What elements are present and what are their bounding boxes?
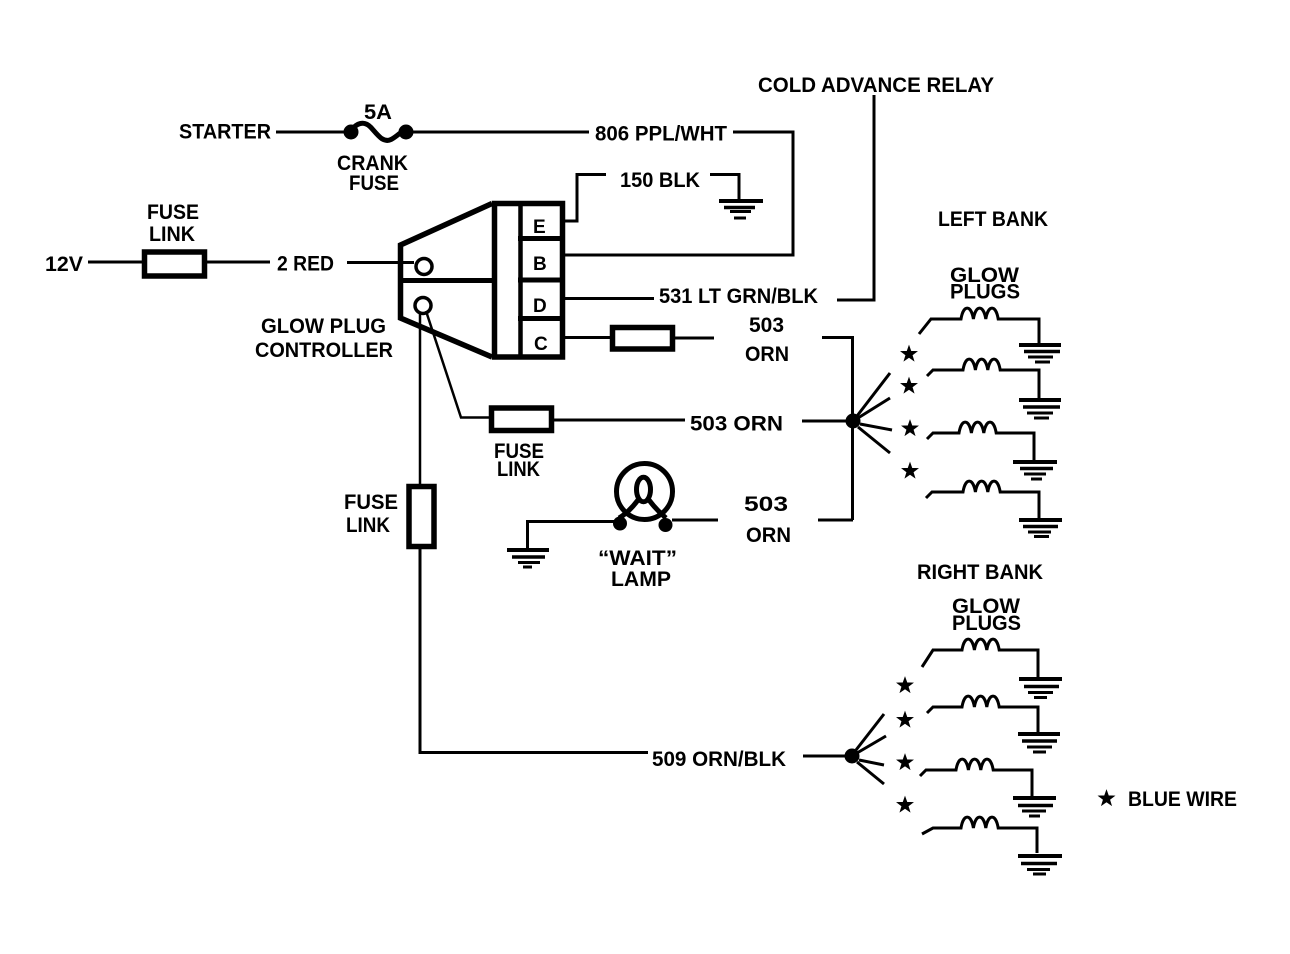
fan wire RB 2	[857, 736, 886, 753]
label FUSE LINK (12V)	[147, 201, 199, 246]
controller inner vertical bar	[518, 203, 523, 357]
wire wait lamp to ground	[528, 522, 615, 549]
star marker LB1	[902, 347, 916, 360]
wait lamp filament loop	[637, 477, 651, 502]
junction node left bank	[846, 414, 861, 429]
ground for wait lamp	[507, 550, 549, 567]
wait lamp filament leg left	[619, 500, 638, 518]
fan wire RB 1	[856, 714, 884, 750]
label 503 ORN (terminal C)	[745, 314, 789, 366]
svg-text:5A: 5A	[364, 101, 392, 124]
wire 509 ORN/BLK to right-bank junction	[803, 755, 845, 758]
glow plug LB1 resistor	[919, 308, 1039, 343]
star marker LB3	[903, 421, 917, 434]
label FUSE LINK (FL2)	[494, 440, 544, 481]
wire FL4 down to 509 ORN/BLK	[420, 547, 648, 753]
controller pin circle upper	[416, 259, 432, 275]
fuse link FL4 (vertical)	[409, 487, 434, 547]
terminal divider B/D	[518, 278, 562, 283]
ground for RB3	[1013, 798, 1056, 816]
wire FL3 to 503 ORN label	[554, 419, 685, 422]
wait lamp terminal right	[659, 518, 673, 532]
ground for RB1	[1019, 679, 1062, 698]
wire wait lamp to 503 ORN label	[672, 519, 718, 522]
ground for RB2	[1018, 734, 1060, 752]
ground for RB4	[1018, 856, 1062, 874]
wait lamp filament leg right	[649, 500, 666, 518]
glow plug RB2 resistor	[927, 696, 1038, 732]
svg-text:PLUGS: PLUGS	[952, 612, 1021, 635]
svg-text:CONTROLLER: CONTROLLER	[255, 339, 393, 362]
wait lamp bulb	[617, 464, 673, 520]
svg-text:E: E	[533, 217, 546, 238]
label 503 ORN (wait lamp)	[744, 493, 791, 547]
svg-text:B: B	[533, 254, 547, 275]
fan wire RB 4	[857, 762, 884, 784]
controller connector column	[495, 204, 563, 358]
wire lower pin to fuse link FL3 (diagonal)	[426, 311, 489, 418]
svg-text:LINK: LINK	[149, 223, 195, 246]
controller pin circle lower	[415, 298, 431, 314]
svg-text:FUSE: FUSE	[344, 491, 398, 514]
glow plug controller housing (trapezoid body)	[401, 204, 493, 358]
ground for LB1	[1019, 345, 1061, 362]
ground for LB4	[1019, 520, 1062, 537]
fan wire LB 2	[858, 398, 890, 418]
wire 12V to fuse link	[88, 261, 142, 264]
label FUSE LINK (FL4)	[344, 491, 398, 537]
svg-text:PLUGS: PLUGS	[950, 281, 1020, 304]
wire COLD ADVANCE RELAY to 531 line	[837, 95, 874, 300]
svg-text:LAMP: LAMP	[611, 568, 671, 591]
junction node right bank	[845, 749, 860, 764]
svg-text:D: D	[533, 296, 547, 317]
star marker RB4	[898, 798, 912, 811]
wire 503 ORN to left-bank junction riser	[822, 338, 853, 521]
star marker RB1	[898, 678, 912, 691]
glow plug RB1 resistor	[922, 639, 1038, 677]
star marker RB3	[898, 755, 912, 768]
ground for LB3	[1013, 462, 1057, 479]
wire 503 ORN label to left-bank junction	[802, 420, 847, 423]
wire terminal E to 150 BLK label	[562, 175, 606, 222]
svg-text:509 ORN/BLK: 509 ORN/BLK	[652, 748, 786, 771]
svg-text:150 BLK: 150 BLK	[620, 169, 700, 192]
fan wire LB 4	[858, 427, 890, 453]
label CRANK FUSE	[337, 152, 408, 195]
wire 806 PPL/WHT to terminal B	[564, 132, 793, 255]
svg-text:STARTER: STARTER	[179, 121, 271, 144]
svg-text:C: C	[534, 334, 548, 355]
glow plug LB2 resistor	[927, 359, 1039, 398]
fuse link FL2 (terminal C)	[613, 328, 673, 350]
label GLOW PLUG CONTROLLER	[255, 315, 393, 362]
fan wire LB 3	[860, 424, 892, 430]
fuse F1 CRANK FUSE 5A	[344, 123, 413, 140]
glow plug LB3 resistor	[927, 422, 1034, 460]
ground for LB2	[1019, 400, 1061, 418]
wait lamp terminal left	[613, 517, 627, 531]
glow plug LB4 resistor	[926, 481, 1039, 518]
wire 150 BLK to ground	[710, 175, 739, 200]
glow plug RB3 resistor	[920, 759, 1032, 796]
svg-text:ORN: ORN	[746, 524, 791, 547]
svg-text:806 PPL/WHT: 806 PPL/WHT	[595, 123, 727, 146]
svg-text:FUSE: FUSE	[147, 201, 199, 224]
svg-text:RIGHT BANK: RIGHT BANK	[917, 561, 1043, 584]
star marker LB4	[903, 464, 917, 477]
label GLOW PLUGS (right bank)	[952, 595, 1021, 635]
terminal divider D/C	[518, 316, 562, 321]
fan wire LB 1	[857, 373, 890, 416]
star marker legend	[1100, 791, 1114, 804]
wire terminal C to fuse link FL2	[562, 336, 610, 339]
svg-text:“WAIT”: “WAIT”	[598, 547, 677, 570]
svg-text:503: 503	[749, 314, 784, 337]
svg-text:12V: 12V	[45, 253, 83, 276]
wire crank fuse to 806 PPL/WHT label	[412, 131, 589, 134]
fuse link FL3 (mid 503 ORN)	[492, 408, 552, 431]
ground for 150 BLK	[719, 201, 763, 218]
svg-text:503 ORN: 503 ORN	[690, 413, 783, 436]
glow plug RB4 resistor	[922, 817, 1037, 853]
fan wire RB 3	[859, 760, 884, 765]
fuse link FL1 (12V feed)	[145, 252, 205, 276]
svg-text:2 RED: 2 RED	[277, 253, 334, 276]
svg-text:COLD ADVANCE RELAY: COLD ADVANCE RELAY	[758, 74, 994, 97]
svg-text:GLOW PLUG: GLOW PLUG	[261, 315, 386, 338]
controller mid divider	[398, 278, 493, 283]
wire 503 ORN label to junction riser	[818, 519, 853, 522]
star marker RB2	[898, 713, 912, 726]
wire STARTER to crank fuse	[276, 131, 345, 134]
wire 2 RED to controller pin A	[347, 261, 414, 264]
label GLOW PLUGS (left bank)	[950, 264, 1020, 304]
svg-text:531 LT GRN/BLK: 531 LT GRN/BLK	[659, 285, 818, 308]
svg-text:BLUE WIRE: BLUE WIRE	[1128, 788, 1237, 811]
wire lower pin down to FL4	[419, 313, 422, 486]
wire FL2 to 503 ORN label	[675, 337, 714, 340]
label WAIT LAMP	[598, 547, 677, 591]
wire fuse link FL1 to 2 RED	[207, 261, 270, 264]
svg-text:503: 503	[744, 493, 788, 516]
wire terminal D to 531 LT GRN/BLK label	[562, 297, 654, 300]
terminal divider E/B	[518, 236, 562, 241]
svg-text:LINK: LINK	[346, 514, 390, 537]
svg-text:ORN: ORN	[745, 343, 789, 366]
svg-text:LINK: LINK	[497, 458, 540, 481]
svg-text:FUSE: FUSE	[349, 172, 399, 195]
star marker LB2	[902, 379, 916, 392]
svg-text:LEFT BANK: LEFT BANK	[938, 208, 1048, 231]
